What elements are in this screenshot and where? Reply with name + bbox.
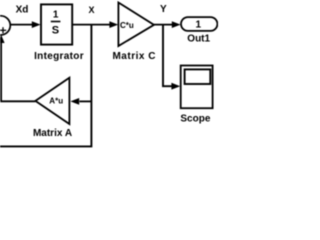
wire: Matrix A output feedback to sum bottom input (1, 40, 35, 101)
svg-text:X: X (88, 5, 94, 15)
gain Matrix A (triangle pointing left) (35, 78, 69, 124)
plus sign at sum bottom input (0, 27, 6, 33)
arrowhead into Matrix C (109, 21, 118, 28)
arrowhead into Matrix A (70, 98, 79, 105)
integrator block (1/S) (41, 4, 72, 44)
svg-text:C*u: C*u (120, 21, 134, 30)
arrowhead into sum (0, 35, 5, 43)
wire: branch from node Y down to Scope (163, 25, 173, 87)
output port Out1 (rounded block) (181, 17, 217, 31)
svg-text:Y: Y (160, 4, 167, 15)
svg-text:Matrix C: Matrix C (112, 51, 155, 62)
svg-text:1: 1 (53, 10, 59, 21)
sum block (circle, clipped at left image edge) (0, 16, 10, 35)
gain Matrix C (triangle pointing right) (118, 3, 154, 47)
wire: integrator output to Matrix C input (72, 24, 111, 26)
wire: branch from node X down and along bottom edge (0, 25, 91, 147)
wire: sum output to Integrator input (10, 24, 33, 26)
scope screen (185, 69, 211, 84)
svg-text:Matrix A: Matrix A (33, 128, 72, 139)
scope block outer frame (181, 66, 213, 109)
svg-text:A*u: A*u (49, 97, 63, 106)
svg-text:Scope: Scope (180, 113, 210, 124)
svg-text:1: 1 (196, 19, 202, 30)
arrowhead into Scope (171, 83, 180, 90)
arrowhead into Integrator (32, 21, 41, 28)
wire: from X branch junction into Matrix A input (80, 100, 92, 102)
svg-text:Xd: Xd (16, 5, 29, 16)
svg-text:Out1: Out1 (187, 34, 210, 45)
arrowhead into Out1 (172, 21, 181, 28)
wire: Matrix C output to Out1 (154, 24, 173, 26)
integrator icon fraction bar (51, 21, 61, 23)
svg-text:Integrator: Integrator (34, 51, 84, 62)
svg-text:S: S (52, 25, 59, 37)
